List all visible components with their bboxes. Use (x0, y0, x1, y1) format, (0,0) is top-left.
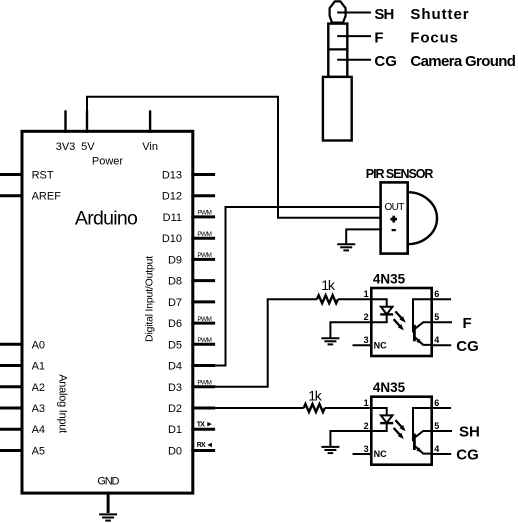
pin D12 (162, 191, 215, 203)
Arduino U1 board outline (22, 131, 193, 493)
pin AREF (0, 191, 61, 203)
svg-text:D1: D1 (168, 424, 182, 436)
svg-text:D5: D5 (168, 339, 182, 351)
svg-text:2: 2 (364, 312, 369, 322)
pin A5 (0, 446, 45, 458)
U3 phototransistor base bar (413, 434, 416, 451)
svg-text:PWM: PWM (197, 380, 211, 387)
svg-text:Arduino: Arduino (75, 208, 138, 230)
svg-text:NC: NC (374, 340, 387, 350)
svg-text:D6: D6 (168, 318, 182, 330)
svg-text:1k: 1k (308, 388, 323, 404)
svg-text:D0: D0 (168, 446, 182, 458)
svg-text:5: 5 (434, 312, 439, 322)
svg-text:D12: D12 (162, 191, 182, 203)
U3 light arrow 1 (395, 420, 405, 431)
wire D2 to R2 (193, 407, 304, 409)
svg-text:Digital Input/Output: Digital Input/Output (144, 256, 156, 342)
U3 phototransistor emitter (415, 446, 431, 453)
svg-text:A4: A4 (32, 424, 45, 436)
PIR sensor module body (381, 182, 408, 253)
svg-text:3: 3 (364, 444, 369, 454)
svg-text:2: 2 (364, 421, 369, 431)
svg-text:A3: A3 (32, 403, 45, 415)
wire R2 to U3 pin 1 (325, 407, 372, 409)
pin RST (0, 170, 54, 182)
svg-text:A0: A0 (32, 339, 45, 351)
svg-text:F: F (463, 315, 472, 332)
U2 phototransistor emitter (415, 338, 431, 345)
U3 LED anode lead (371, 408, 386, 415)
pin A1 (0, 361, 45, 373)
resistor R2 (304, 404, 325, 412)
ground symbol U3 (321, 447, 339, 453)
pin A4 (0, 424, 45, 436)
wire R1 to U2 pin 1 (338, 298, 372, 300)
pin 5V (81, 110, 95, 153)
connector J1 plug body (323, 77, 352, 141)
svg-text:A2: A2 (32, 382, 45, 394)
svg-text:D7: D7 (168, 297, 182, 309)
U2 LED triangle (381, 307, 393, 315)
svg-text:Vin: Vin (142, 141, 158, 153)
wire U3 pin 4 output (432, 453, 452, 455)
svg-text:F: F (374, 30, 383, 47)
pin A2 (0, 382, 45, 394)
ground symbol Arduino GND (99, 514, 117, 520)
svg-text:D11: D11 (163, 212, 182, 224)
pin Vin (142, 110, 158, 153)
resistor R1 (317, 295, 338, 303)
svg-text:A5: A5 (32, 446, 45, 458)
connector J1 ring/sleeve divider (328, 48, 347, 50)
U3 emitter arrowhead (416, 447, 422, 453)
U3 LED cathode lead (371, 423, 386, 431)
svg-text:4N35: 4N35 (373, 271, 406, 286)
svg-text:CG: CG (456, 338, 479, 355)
wire 5V to PIR + (87, 97, 381, 218)
U2 LED anode lead (371, 299, 386, 306)
svg-text:TX: TX (197, 421, 206, 428)
optocoupler U2 4N35 body (371, 288, 431, 356)
wire D4 to PIR OUT (193, 207, 381, 366)
svg-text:PWM: PWM (197, 252, 211, 259)
pin D9 (168, 252, 215, 266)
svg-text:4: 4 (434, 444, 439, 454)
wire PIR - to ground (346, 229, 381, 244)
pin D8 (168, 276, 215, 288)
svg-text:RST: RST (32, 170, 54, 182)
wire pointer CG sleeve (337, 59, 371, 61)
svg-text:NC: NC (374, 449, 387, 459)
svg-text:Camera Ground: Camera Ground (410, 53, 515, 70)
U3 LED cathode bar (380, 422, 393, 424)
wire U2 pin 3 stub NC (353, 344, 372, 346)
pin D6 (168, 316, 215, 330)
U2 LED cathode lead (371, 314, 386, 322)
svg-text:Shutter: Shutter (410, 6, 469, 23)
wire U3 pin 5 output (432, 430, 452, 432)
pin D5 (168, 337, 215, 351)
svg-text:AREF: AREF (32, 191, 62, 203)
PIR sensor dome (408, 192, 437, 244)
svg-text:D8: D8 (168, 276, 182, 288)
svg-text:6: 6 (434, 398, 439, 408)
wire U3 pin 2 to ground (330, 431, 371, 447)
svg-text:3V3: 3V3 (56, 141, 76, 153)
svg-text:PWM: PWM (197, 316, 211, 323)
pin 3V3 (56, 110, 76, 153)
svg-text:PIR SENSOR: PIR SENSOR (366, 167, 434, 181)
svg-text:SH: SH (459, 424, 480, 441)
connector J1 3.5mm plug tip (330, 1, 346, 22)
svg-text:D10: D10 (162, 233, 182, 245)
ground symbol U2 (321, 338, 339, 344)
U2 light arrow 1 (395, 311, 405, 322)
label minus (392, 229, 396, 231)
svg-text:CG: CG (374, 53, 397, 70)
svg-text:D2: D2 (168, 403, 182, 415)
U3 phototransistor collector (415, 431, 431, 437)
pin GND (97, 475, 119, 513)
U2 phototransistor base lead (413, 299, 432, 332)
wire U2 pin 2 to ground (330, 322, 371, 338)
svg-text:D3: D3 (168, 382, 182, 394)
pin D10 (162, 231, 215, 245)
svg-text:1k: 1k (321, 277, 336, 293)
svg-text:1: 1 (364, 289, 369, 299)
pin D13 (162, 170, 215, 182)
svg-text:PWM: PWM (197, 337, 211, 344)
svg-text:Power: Power (92, 156, 124, 168)
svg-text:CG: CG (456, 447, 479, 464)
svg-text:D13: D13 (162, 170, 182, 182)
U2 light arrow 2 (394, 319, 404, 330)
svg-text:PWM: PWM (197, 210, 211, 217)
U2 emitter arrowhead (416, 339, 422, 345)
svg-text:1: 1 (364, 398, 369, 408)
pin A3 (0, 403, 45, 415)
svg-text:4N35: 4N35 (373, 380, 406, 395)
pin D7 (168, 297, 215, 309)
wire U3 pin 6 stub (432, 407, 451, 409)
wire U3 pin 3 stub NC (353, 453, 372, 455)
wire pointer F ring (337, 35, 371, 37)
pin D11 (163, 210, 215, 224)
U3 LED triangle (381, 415, 393, 423)
svg-text:OUT: OUT (385, 202, 405, 213)
wire U2 pin 5 output (432, 321, 452, 323)
svg-text:Focus: Focus (410, 30, 458, 47)
U2 phototransistor collector (415, 322, 431, 328)
pin D0 (168, 442, 215, 457)
svg-text:D4: D4 (168, 361, 182, 373)
U2 phototransistor base bar (413, 325, 416, 342)
wire pointer SH tip (337, 12, 371, 14)
wire U2 pin 4 output (432, 344, 452, 346)
svg-text:D9: D9 (168, 254, 182, 266)
wire D3 to R1 (193, 299, 317, 387)
wire U2 pin 6 stub (432, 298, 451, 300)
svg-text:5V: 5V (81, 141, 95, 153)
svg-text:3: 3 (364, 335, 369, 345)
svg-text:SH: SH (374, 6, 393, 23)
svg-text:GND: GND (97, 475, 119, 487)
pin D4 (168, 361, 215, 373)
pin D3 (168, 380, 215, 394)
ground symbol PIR (337, 244, 355, 250)
svg-text:PWM: PWM (197, 231, 211, 238)
optocoupler U3 4N35 body (371, 397, 431, 465)
U3 light arrow 2 (394, 428, 404, 439)
U3 phototransistor base lead (413, 408, 432, 441)
pin D2 (168, 403, 215, 415)
label plus (390, 216, 397, 223)
svg-text:RX: RX (197, 442, 206, 449)
U2 LED cathode bar (380, 313, 393, 315)
svg-text:6: 6 (434, 289, 439, 299)
svg-text:5: 5 (434, 421, 439, 431)
svg-text:4: 4 (434, 335, 439, 345)
connector J1 ring shaft (328, 24, 347, 77)
pin D1 (168, 421, 215, 436)
pin A0 (0, 339, 45, 351)
svg-text:Analog Input: Analog Input (57, 374, 69, 433)
svg-text:A1: A1 (32, 361, 45, 373)
